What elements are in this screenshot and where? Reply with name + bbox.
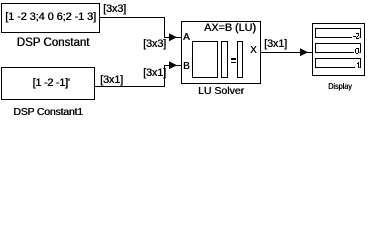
display value 1 (pixel digits) [355, 61, 360, 69]
wire: DSP Constant1 out, horizontal segment y=86 [95, 86, 165, 87]
wire: vertical segment up to B port level [164, 65, 165, 87]
wire: LU Solver out to Display, y=52 [260, 52, 312, 53]
LU Solver title text AX=B (LU) [204, 22, 256, 34]
port label X [250, 45, 257, 56]
signal label [3x1] output [264, 38, 287, 50]
DSP Constant1 value text [4, 77, 98, 89]
port label A [183, 32, 190, 43]
signal label [3x1] lower [100, 74, 123, 86]
wire: horizontal into A port [164, 37, 181, 38]
arrowheads svg [0, 0, 371, 118]
signal label [3x1] at B port [143, 67, 166, 79]
Display block [312, 23, 365, 76]
icon: vector B narrow rect [237, 41, 243, 78]
icon: matrix A big rect [192, 41, 218, 78]
wire: DSP Constant out, horizontal segment y=17 [100, 17, 165, 18]
signal label [3x3] top [103, 3, 126, 15]
display value box 3 [315, 58, 361, 68]
LU Solver block [181, 21, 261, 84]
signal label [3x3] at A port [143, 38, 166, 50]
wire: vertical segment down to A port level [164, 17, 165, 38]
arrowhead into A port [169, 33, 177, 41]
LU Solver name label [181, 85, 261, 97]
Display name label [312, 81, 367, 91]
arrowhead into Display [300, 48, 308, 56]
DSP Constant block (top-left) [1, 3, 100, 33]
icon: equals sign bar 2 [231, 62, 236, 64]
icon: equals sign bar 1 [231, 58, 236, 60]
arrowhead into B port [169, 61, 177, 69]
display value -2 (pixel digits) [352, 32, 360, 40]
port label B [183, 61, 190, 72]
DSP Constant1 block (bottom-left) [1, 67, 95, 100]
wire: horizontal into B port [164, 65, 181, 66]
DSP Constant name label [1, 37, 105, 49]
display value box 1 [315, 28, 361, 38]
DSP Constant1 name label [1, 106, 95, 118]
display value 0 (pixel digits) [354, 47, 360, 55]
DSP Constant value text [1, 11, 100, 23]
icon: vector X narrow rect [221, 41, 228, 78]
display value box 2 [315, 43, 361, 53]
